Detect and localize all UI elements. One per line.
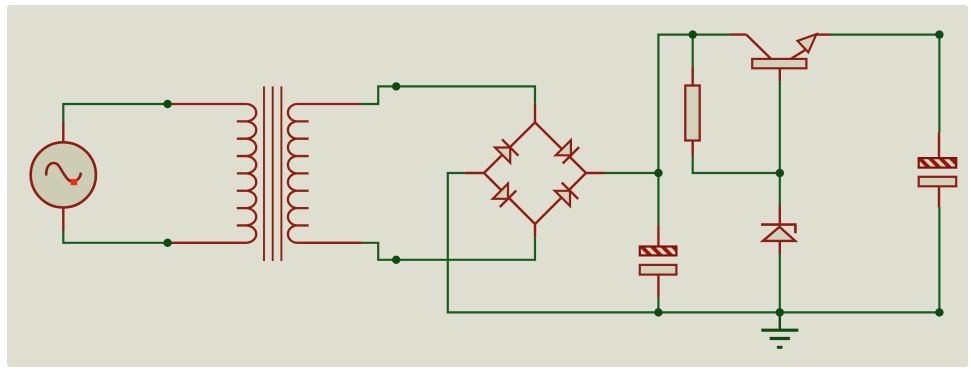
junction dot: primary top (163, 100, 171, 108)
pin: bridge bottom (534, 224, 536, 237)
primary winding (246, 104, 256, 243)
wire: secondary top to bridge top vertex (361, 86, 535, 104)
wire: base node down to zener cathode (779, 173, 781, 206)
wire: AC source bottom to transformer primary bottom (63, 231, 167, 243)
pin: V1 bottom lead (62, 208, 64, 232)
pin: Q1 collector lead (730, 33, 747, 35)
wire: AC source top to transformer primary top (63, 104, 167, 122)
junction dot: DC+ node (654, 169, 662, 177)
pin: primary top lead (168, 103, 247, 105)
wire: top rail to resistor top (692, 35, 694, 67)
junction dot: ground node (776, 308, 784, 316)
C1 negative plate (640, 265, 677, 275)
pin: primary bottom lead (168, 242, 247, 244)
pin: Q1 base lead (779, 68, 781, 81)
wire: zener anode to ground rail (779, 254, 781, 312)
diode D3 (left vertex to bottom vertex) (484, 173, 535, 224)
diode D4 (bottom vertex to right vertex) (535, 173, 586, 224)
junction dot: C1 at ground rail (654, 308, 662, 316)
transformer TR1 (168, 86, 363, 261)
pin: D5 cathode lead (779, 206, 781, 224)
zener diode D5 (761, 206, 795, 255)
pin: V1 top lead (62, 122, 64, 143)
junction dot: bottom right corner (935, 308, 943, 316)
junction dot: secondary top jog (392, 82, 400, 90)
V1 sine wave (46, 163, 81, 181)
pin: C2 top lead (938, 132, 940, 158)
Q1 emitter arrow (798, 34, 817, 52)
pin: bridge left (465, 172, 484, 174)
junction dot: base node (776, 169, 784, 177)
V1 red origin square (71, 179, 78, 185)
pin: bridge top (534, 103, 536, 122)
pin: secondary top lead (297, 103, 361, 105)
wire: emitter to top right corner down to C2 (831, 35, 940, 133)
pin: C2 bottom lead (938, 186, 940, 207)
AC source V1 (31, 122, 96, 231)
junction dot: resistor at top rail (689, 30, 697, 38)
V1 body circle (31, 142, 96, 207)
pin: C1 bottom lead (657, 275, 659, 298)
Q1 emitter diagonal (791, 47, 810, 59)
wire: DC+ node up and top rail to collector (658, 35, 729, 173)
wire: secondary bottom to bridge bottom vertex (363, 237, 535, 260)
capacitor C1 (polarized filter cap) (640, 226, 677, 298)
Q1 collector diagonal (746, 35, 771, 60)
primary winding tick marks (237, 121, 246, 225)
diode D2 (top vertex to right vertex) (535, 122, 586, 173)
secondary winding tick marks (297, 121, 308, 225)
D5 triangle (763, 227, 795, 241)
pin: R1 top lead (692, 67, 694, 86)
C2 negative plate (919, 177, 957, 187)
wire: transistor base down to base node (779, 81, 781, 173)
pin: bridge right (586, 172, 605, 174)
transistor Q1 (NPN pass transistor) (730, 34, 831, 81)
resistor R1 (685, 67, 699, 156)
core (264, 86, 281, 261)
junction dot: top right corner (935, 30, 943, 38)
pin: D5 anode lead (779, 241, 781, 254)
pin: R1 bottom lead (692, 141, 694, 156)
capacitor C2 (output polarized cap) (919, 132, 957, 207)
D5 cathode bar with tail (761, 225, 795, 234)
pin: C1 top lead (657, 226, 659, 247)
diode D1 (left vertex to top vertex) (484, 122, 535, 173)
junction dot: primary bottom (163, 239, 171, 247)
C1 positive plate (hatched) (640, 247, 677, 256)
wire: C1 bottom to ground rail (657, 297, 659, 312)
wire: bridge right vertex to DC+ node (605, 172, 659, 174)
wire: DC+ node down to C1 (657, 173, 659, 226)
wire: resistor bottom to base node (693, 156, 780, 174)
pin: secondary bottom lead (297, 242, 363, 244)
C2 positive plate (hatched) (919, 158, 957, 168)
secondary winding (288, 104, 297, 243)
junction dot: secondary bottom jog (392, 256, 400, 264)
bridge rectifier pins (465, 103, 605, 237)
R1 body (685, 86, 699, 141)
Q1 base bar (752, 59, 806, 68)
wire: bridge left vertex down to ground rail and rail to right side up to C2 (448, 173, 940, 312)
ground (761, 312, 798, 347)
pin: Q1 emitter lead (816, 33, 830, 35)
